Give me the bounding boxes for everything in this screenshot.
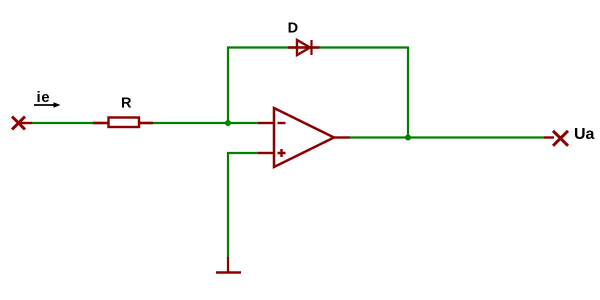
svg-text:ie: ie xyxy=(37,89,51,106)
svg-text:R: R xyxy=(121,96,132,112)
svg-text:D: D xyxy=(288,21,298,37)
svg-text:Ua: Ua xyxy=(574,126,595,143)
